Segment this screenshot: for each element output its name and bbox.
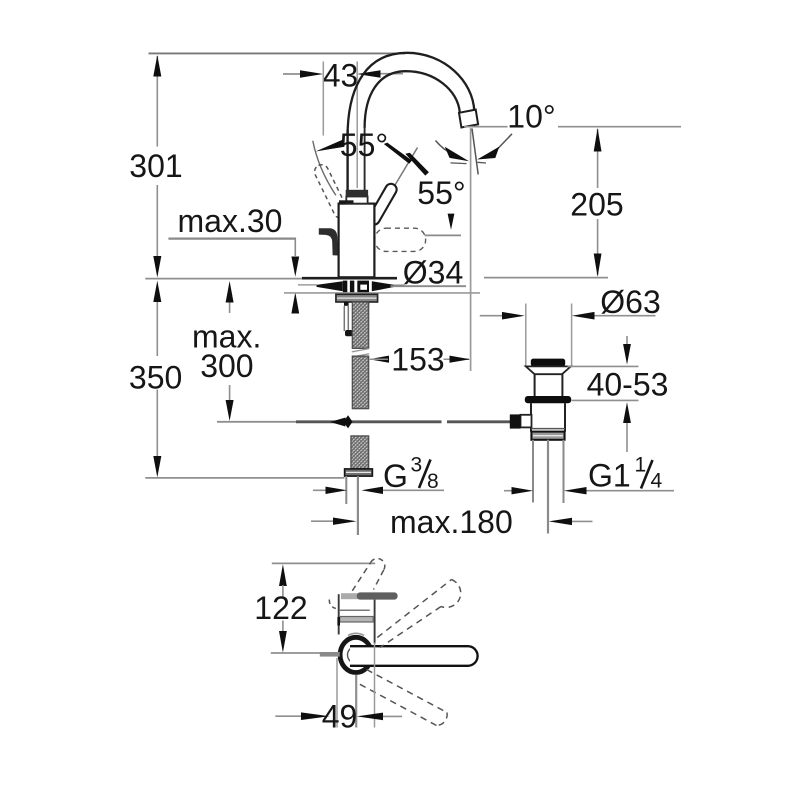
dim O63 (480, 315, 503, 317)
pop-up rod horizontal (217, 421, 296, 423)
spout outlet box (459, 110, 478, 128)
dim max.300 vertical (229, 303, 231, 314)
svg-text:40-53: 40-53 (587, 367, 669, 403)
top view body inner line (340, 609, 370, 611)
drain body (530, 403, 532, 431)
svg-text:43: 43 (323, 57, 359, 93)
svg-text:G: G (383, 458, 408, 494)
svg-text:350: 350 (129, 360, 182, 396)
top view swivel dashed arc left (329, 600, 336, 609)
wire bottom reference line 350 (145, 477, 344, 479)
hose tail lines (345, 476, 347, 504)
shank stubs below locknut (344, 302, 349, 306)
swivel arc left (436, 141, 453, 154)
pop-up rod hook (345, 330, 353, 336)
top view inner circle (348, 647, 365, 664)
spout inner arc (365, 71, 460, 128)
top view spout swivel dashes (352, 562, 371, 591)
deck top line left (145, 278, 302, 280)
spout outer arc (348, 53, 475, 133)
swivel arc right with 10 deg leader (498, 134, 513, 149)
top view cartridge ring (340, 637, 372, 672)
top view handle dashed NE (377, 580, 451, 638)
lever open position pill (374, 190, 391, 220)
rod pivot arrow (330, 418, 346, 427)
dim 350 arrows (153, 281, 161, 303)
flange right wedge (372, 281, 395, 291)
rod connector block (510, 414, 521, 428)
dim max.180 (311, 520, 334, 522)
svg-text:3: 3 (411, 454, 423, 477)
arc arrow left of 55deg (313, 141, 336, 196)
flange left wedge (317, 281, 343, 291)
drain flange (526, 366, 571, 374)
dim 43 line left (283, 73, 302, 75)
dim 49 (275, 715, 301, 717)
svg-text:1: 1 (635, 454, 647, 477)
wire 122 top reference (272, 562, 375, 564)
wire 43 extension lines (322, 62, 324, 136)
faucet body (339, 204, 375, 278)
svg-text:55°: 55° (417, 175, 465, 211)
rod pivot diamond (344, 415, 353, 428)
svg-text:10°: 10° (507, 99, 555, 135)
top view handle dashed SE (367, 670, 448, 713)
deck top line dark under faucet (302, 277, 397, 280)
lever dashed up-left position (312, 162, 350, 220)
leader arrow below 55deg lower (448, 214, 455, 230)
deck bottom line (284, 292, 480, 294)
svg-text:55°: 55° (340, 127, 388, 163)
drain seal ring (525, 396, 571, 403)
svg-text:205: 205 (570, 187, 623, 223)
dim 350 vertical line (156, 301, 158, 457)
wire top reference line 301 (149, 52, 406, 54)
supply hose middle (352, 356, 368, 408)
faucet collar (346, 197, 367, 204)
dim 153 (369, 356, 389, 363)
dim max.30 vertical (294, 239, 296, 256)
dim 40-53 lines (568, 365, 639, 367)
rod connector box (521, 415, 532, 428)
G3/8 connector nut (345, 469, 373, 476)
spout tilt axis 10 deg (472, 129, 478, 175)
svg-text:300: 300 (200, 348, 253, 384)
faucet collar dark band (346, 190, 368, 197)
svg-text:49: 49 (322, 699, 358, 735)
supply hose lower (351, 436, 369, 469)
svg-text:Ø34: Ø34 (403, 255, 463, 291)
dim O34 underline (391, 285, 467, 287)
dim 49 extension lines (336, 658, 338, 728)
handle lever solid (319, 228, 338, 255)
svg-text:max.30: max.30 (178, 203, 283, 239)
top view ring top light arc (348, 633, 364, 635)
svg-text:max.180: max.180 (390, 504, 513, 540)
hose break symbol (352, 349, 369, 352)
dim G3/8 (313, 489, 327, 491)
drain tail pipe (532, 440, 534, 503)
dim 122 vertical (279, 564, 287, 586)
wire max.30 underline (168, 238, 296, 240)
top view aerator bar (357, 592, 398, 599)
top view spout body right edge (374, 600, 376, 644)
pop-up rod channel (343, 306, 345, 331)
lever dashed horizontal position (375, 228, 426, 251)
wire extension line from outlet down (470, 128, 472, 371)
drain neck (534, 374, 536, 396)
svg-text:G1: G1 (588, 458, 631, 494)
svg-text:4: 4 (651, 470, 663, 493)
top view spout body left edge (338, 594, 340, 634)
wire 10deg underline right (558, 126, 681, 128)
spout riser right line (364, 126, 366, 190)
shank cross-section bars (343, 281, 347, 293)
top view collar band (340, 617, 374, 623)
wire 122 bottom reference (271, 652, 321, 654)
faucet body top-left mark (339, 200, 354, 203)
locknut (336, 294, 378, 302)
dim 205 vertical (597, 129, 599, 188)
top view left edge dark mark (337, 617, 340, 626)
wire 10deg underline left (464, 126, 508, 128)
dim 301 arrows (153, 55, 161, 77)
spout riser left line (346, 130, 348, 190)
svg-text:Ø63: Ø63 (600, 284, 660, 320)
svg-text:301: 301 (129, 148, 182, 184)
drain plug cap (531, 359, 565, 367)
dim G1 1/4 (504, 490, 513, 492)
top view aerator bar light stub (341, 593, 359, 599)
supply hose upper (352, 302, 368, 348)
top view pop-up rod stub (320, 652, 340, 657)
lever axis line with double arrow 55deg (374, 148, 418, 222)
O63 extension lines (525, 304, 527, 367)
drain nut (531, 432, 564, 440)
dim 301 vertical line (156, 56, 158, 256)
svg-text:153: 153 (391, 342, 444, 378)
wire deck line right (484, 277, 608, 279)
svg-text:122: 122 (254, 590, 307, 626)
dim 43 line right (379, 73, 403, 75)
top view handle pill (350, 646, 478, 666)
